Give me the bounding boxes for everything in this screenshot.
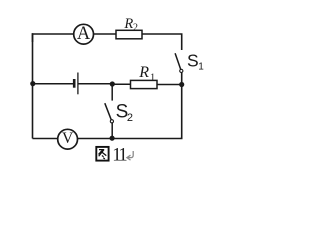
svg-text:2: 2	[127, 112, 133, 124]
junction node left (battery branch)	[30, 81, 35, 86]
svg-text:1: 1	[150, 72, 155, 83]
junction node bottom (S2 to bottom wire)	[110, 136, 115, 141]
wire top-left segment (corner to ammeter)	[33, 34, 74, 42]
wire S1 contact down right rail	[181, 73, 183, 139]
caption paragraph return mark	[127, 151, 133, 160]
svg-text:V: V	[62, 130, 74, 147]
battery negative plate (short thick)	[73, 79, 76, 88]
svg-text:1: 1	[198, 61, 204, 72]
switch S2 contact circle	[110, 120, 113, 123]
resistor R1 body	[131, 80, 158, 88]
wire R1 to right junction	[157, 84, 182, 86]
svg-text:S: S	[187, 51, 199, 71]
caption character TU (figure) drawn glyph	[96, 147, 108, 161]
bottom wire right segment (voltmeter to right corner)	[78, 137, 182, 139]
svg-text:A: A	[77, 24, 91, 44]
wire R2 to top-right corner and down	[142, 34, 182, 50]
wire S2 contact to bottom junction	[111, 123, 113, 138]
bottom wire left segment (corner to voltmeter)	[33, 138, 58, 140]
svg-text:R: R	[138, 64, 149, 81]
junction node right (R1 to right rail)	[179, 82, 184, 87]
svg-text:2: 2	[133, 22, 138, 33]
junction node middle (S2 branch)	[110, 81, 115, 86]
wire battery to middle junction	[79, 83, 113, 85]
resistor R2 body	[116, 30, 142, 39]
ammeter U1 circle	[74, 24, 94, 44]
switch S2 blade	[105, 103, 111, 120]
wire ammeter to resistor R2	[94, 33, 117, 35]
wire S2 branch from middle junction down	[111, 84, 113, 101]
svg-text:11: 11	[112, 146, 127, 166]
switch S1 contact circle	[180, 69, 183, 72]
voltmeter U2 circle	[58, 129, 78, 149]
switch S1 blade	[175, 53, 181, 69]
wire left junction to battery	[33, 83, 73, 85]
svg-text:R: R	[123, 16, 133, 32]
battery positive plate (long thin)	[77, 73, 79, 95]
left rail wire	[32, 33, 34, 138]
wire middle junction to R1	[112, 83, 130, 85]
